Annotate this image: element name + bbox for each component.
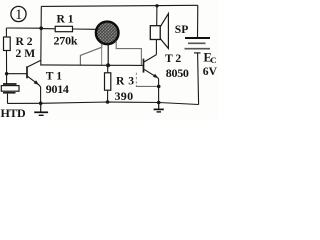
piezo transducer HTD (1, 84, 19, 103)
wire: dashed faint vertical above emitter stub (135, 73, 137, 86)
wire: T2 base (108, 64, 143, 66)
svg-text:C: C (210, 55, 216, 65)
transistor T1 (7, 60, 41, 103)
left rail (5, 28, 7, 84)
wire: mic left leg (gray stepped wire) (80, 44, 101, 66)
top rail (VCC) (41, 5, 198, 6)
wire: T1 collector to T2 base node (41, 64, 108, 66)
resistor R2 (4, 37, 11, 51)
svg-text:390: 390 (115, 89, 134, 103)
battery EC (185, 38, 211, 53)
resistor R1 (41, 26, 95, 31)
node: T1 base / left rail (5, 72, 8, 75)
svg-text:9014: 9014 (46, 82, 69, 96)
wire: left rail top horizontal to node A (6, 27, 41, 29)
right rail upper (to battery +) (197, 5, 199, 37)
right rail lower (battery - to bottom rail) (198, 53, 199, 105)
node: R3 bottom on bottom rail (106, 100, 110, 104)
speaker SP (150, 6, 168, 49)
svg-text:R 1: R 1 (57, 12, 74, 25)
svg-text:T 2: T 2 (165, 52, 181, 65)
circled figure number 1 (11, 6, 26, 23)
label EC (204, 50, 217, 65)
wire: mic right terminal to T2 base (stepped gray wire) (116, 41, 141, 66)
svg-text:T 1: T 1 (46, 69, 62, 82)
svg-text:6V: 6V (203, 65, 218, 78)
transistor T2 (144, 55, 159, 103)
svg-text:270k: 270k (54, 34, 78, 48)
svg-text:1: 1 (15, 7, 22, 23)
svg-text:8050: 8050 (166, 66, 189, 80)
svg-text:R 3: R 3 (116, 75, 135, 88)
wire: mic right leg (107, 44, 109, 66)
resistor R3 (105, 65, 111, 102)
ground 1 (T1 emitter) (34, 102, 48, 116)
wire: gray stub joining T2 emitter (136, 85, 160, 89)
ground 2 (T2 emitter) (154, 101, 164, 112)
microphone / piezo pickup disc (96, 22, 119, 45)
wire: speaker to T2 collector (155, 40, 157, 55)
node A (R1/R2 junction) (39, 26, 43, 30)
svg-text:HTD: HTD (1, 106, 27, 120)
node B (T2 base / R3 top) (106, 63, 110, 67)
node: top rail to speaker junction (155, 4, 158, 7)
svg-text:R 2: R 2 (16, 35, 33, 48)
svg-text:2 M: 2 M (16, 47, 36, 60)
vertical wire from top rail through node A to T1 collector (40, 6, 43, 65)
bottom rail (ground net) (7, 102, 198, 105)
svg-text:SP: SP (175, 23, 189, 36)
